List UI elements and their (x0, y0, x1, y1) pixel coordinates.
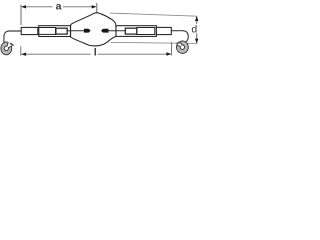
svg-text:d: d (191, 24, 197, 36)
svg-text:a: a (56, 1, 62, 13)
svg-text:l: l (94, 47, 97, 59)
